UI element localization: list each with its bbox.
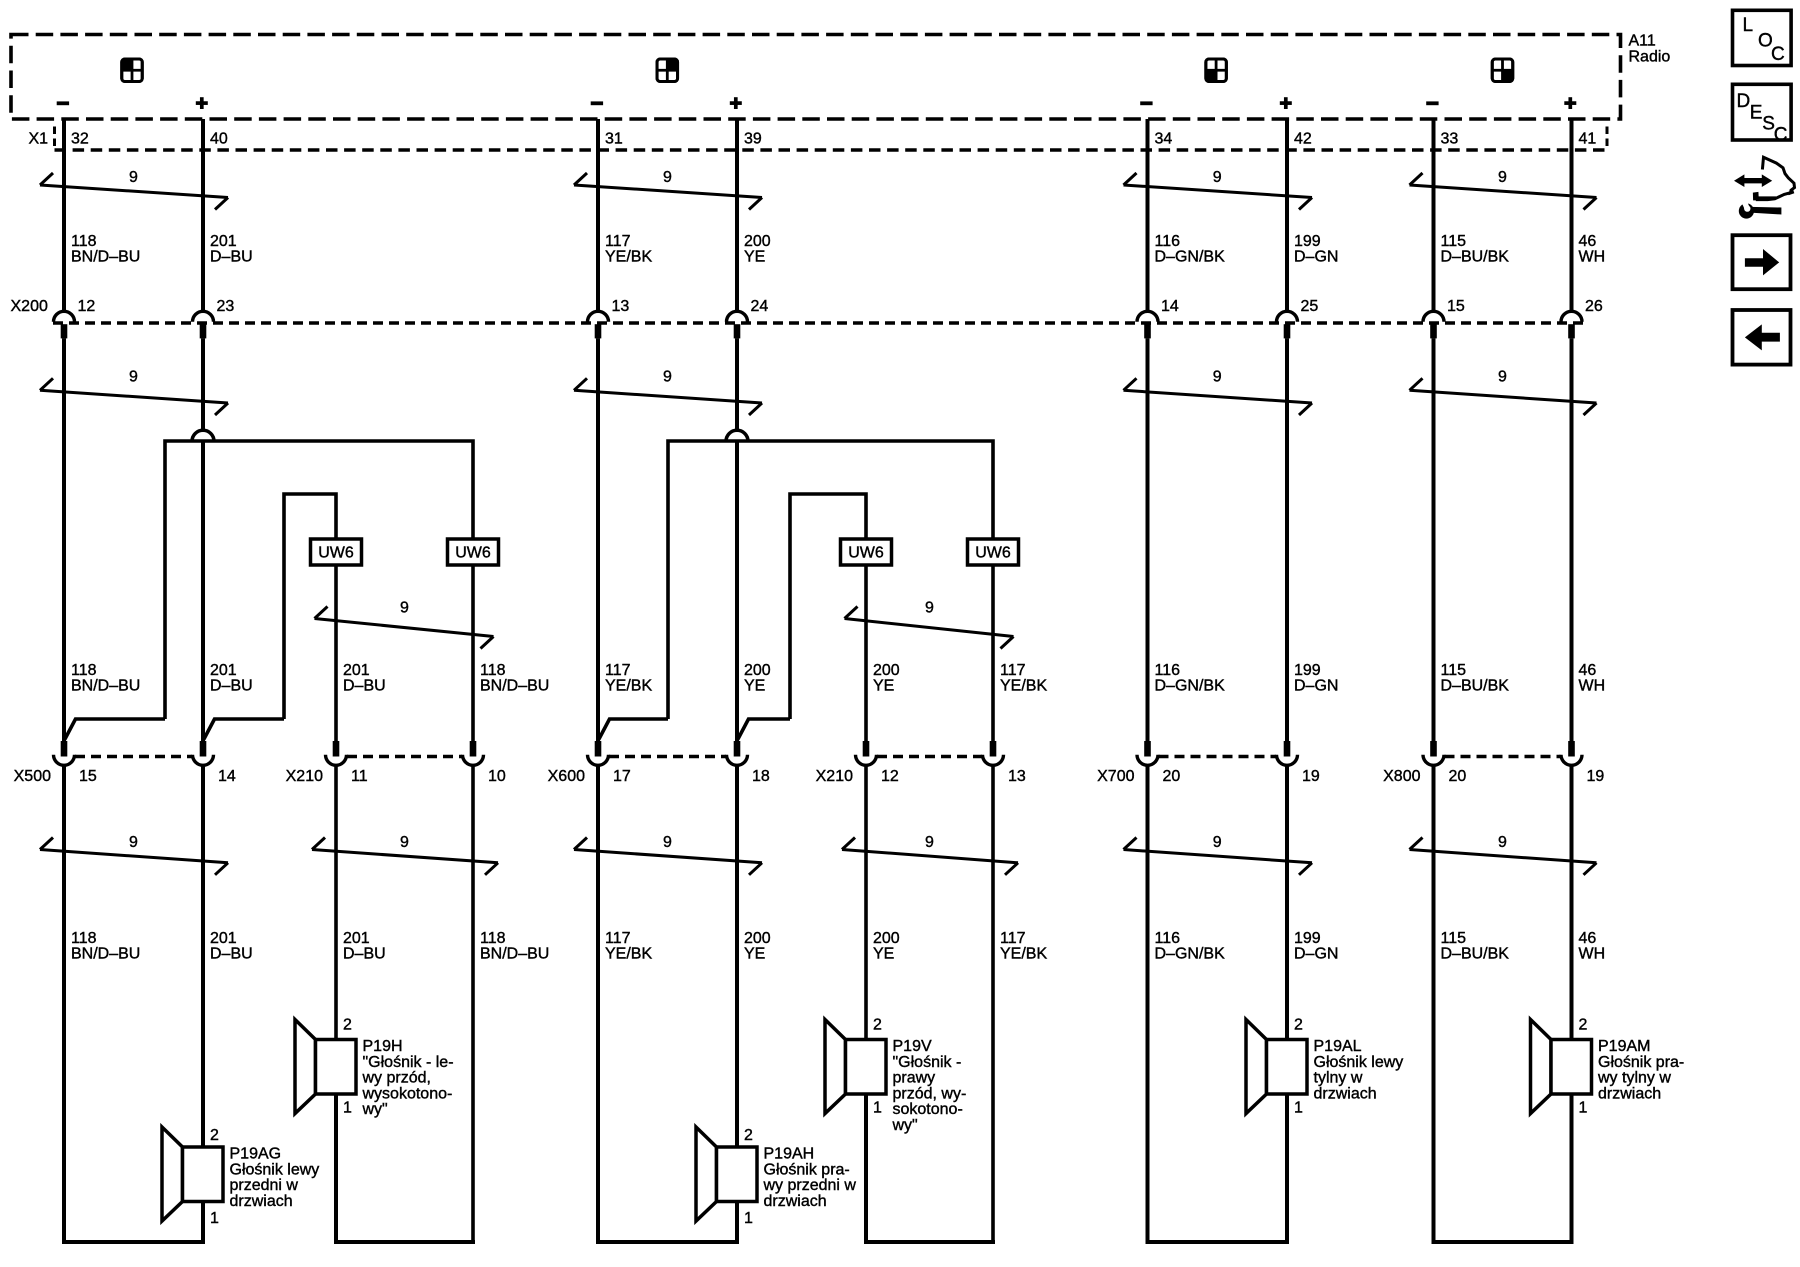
svg-text:15: 15 [1447,298,1465,315]
svg-text:E: E [1750,102,1763,123]
wire bottom return U [1146,1240,1290,1244]
svg-text:YE: YE [744,946,765,963]
svg-text:201: 201 [210,233,237,250]
svg-text:Głośnik pra-: Głośnik pra- [1598,1054,1684,1071]
svg-text:X210: X210 [816,768,853,785]
svg-text:drzwiach: drzwiach [764,1193,827,1210]
DESC reference box [1733,84,1792,145]
svg-text:Radio: Radio [1629,48,1671,65]
svg-text:26: 26 [1585,298,1603,315]
option box UW6 [841,539,892,565]
svg-text:X1: X1 [29,131,49,148]
polarity plus mark [730,97,742,109]
X500 terminal pin 14 [193,741,236,785]
svg-text:D–BU: D–BU [343,946,386,963]
svg-text:X700: X700 [1097,768,1134,785]
svg-text:39: 39 [744,131,762,148]
wire label 200 YE [744,662,771,695]
svg-text:YE/BK: YE/BK [1000,946,1047,963]
svg-text:BN/D–BU: BN/D–BU [71,946,140,963]
svg-text:D–GN: D–GN [1294,249,1338,266]
svg-text:115: 115 [1441,233,1467,250]
twisted pair symbol (note 9) [842,834,1018,875]
wire label 118 BN/D–BU [480,662,549,695]
svg-text:116: 116 [1155,233,1181,250]
wire label 201 D–BU [210,930,253,963]
svg-text:117: 117 [605,662,631,679]
svg-text:9: 9 [663,369,672,386]
svg-text:9: 9 [400,600,409,617]
twisted pair symbol (note 9) [845,600,1014,649]
branch wire 117 merge into X600-17 [599,719,668,740]
svg-text:C: C [1774,124,1788,145]
svg-text:YE: YE [873,946,894,963]
wire label 199 D–GN [1294,930,1338,963]
svg-text:200: 200 [873,662,900,679]
svg-text:WH: WH [1579,249,1606,266]
connector X700 dashed line [1159,755,1277,758]
X700 terminal pin 20 [1137,741,1180,785]
svg-text:P19V: P19V [893,1038,932,1055]
svg-text:1: 1 [1579,1100,1588,1117]
svg-text:9: 9 [1213,834,1222,851]
svg-text:199: 199 [1294,662,1321,679]
svg-text:9: 9 [129,169,138,186]
label X600 [548,768,585,785]
polarity plus mark [196,97,208,109]
svg-text:WH: WH [1579,946,1606,963]
wire speaker P19H pin 1 to bottom U [334,1094,338,1242]
forward arrow box [1733,235,1791,289]
svg-text:P19AL: P19AL [1314,1038,1362,1055]
wire label 117 YE/BK [605,662,652,695]
wire label 201 D–BU [343,930,386,963]
svg-text:1: 1 [343,1100,352,1117]
twisted pair symbol (note 9) [40,834,228,875]
svg-text:D: D [1737,91,1751,112]
svg-text:BN/D–BU: BN/D–BU [71,678,140,695]
wire 201 to tweeter pin 2 [334,767,338,1040]
connector X600 dashed line [609,755,726,758]
X200 terminal pin 15 [1423,298,1465,338]
wire label 118 BN/D–BU [71,930,140,963]
svg-text:1: 1 [1294,1100,1303,1117]
wire 118 to speaker return (bottom U) [62,767,66,1243]
svg-text:9: 9 [925,600,934,617]
X210 terminal pin 10 [463,741,506,785]
svg-text:201: 201 [343,930,370,947]
svg-text:D–GN/BK: D–GN/BK [1155,249,1226,266]
connector face icon (BL quadrant filled) [1206,59,1227,82]
X600 terminal pin 17 [588,741,631,785]
svg-text:D–BU/BK: D–BU/BK [1441,946,1510,963]
wire bottom return U [62,1240,205,1244]
twisted pair symbol (note 9) [315,600,494,649]
svg-text:117: 117 [1000,662,1026,679]
wire label 117 YE/BK [605,930,652,963]
wire label 200 YE [873,930,900,963]
svg-text:15: 15 [79,768,97,785]
svg-text:YE/BK: YE/BK [1000,678,1047,695]
svg-text:201: 201 [210,662,237,679]
wire label 115 D–BU/BK [1441,233,1510,266]
wire label 118 BN/D–BU [71,233,140,266]
wire 46 from X1-41 to X200 [1570,119,1574,313]
twisted pair symbol (note 9) [40,169,228,210]
wire bottom return U [334,1240,475,1244]
X1 pin 34 [1155,131,1173,148]
wire 117 to speaker return (bottom U) [596,767,600,1243]
wire 115 from X1-33 to X200 [1432,119,1436,313]
speaker P19AH [696,1127,856,1227]
svg-text:wy przód,: wy przód, [362,1070,431,1087]
X1 pin 31 [605,131,623,148]
X200 terminal pin 24 [727,298,769,338]
branch wire 201 to X210 [284,494,336,719]
svg-text:9: 9 [129,834,138,851]
polarity minus mark [1140,101,1152,105]
svg-text:2: 2 [210,1127,219,1144]
wire 118 UW6 to X210-10 [471,565,475,742]
polarity minus mark [591,101,603,105]
svg-text:wy": wy" [362,1101,388,1118]
branch wire 117 crossover to X210 [668,441,993,719]
svg-text:200: 200 [744,233,771,250]
label X1 [29,131,49,148]
svg-text:D–GN/BK: D–GN/BK [1155,678,1226,695]
X1 pin 41 [1579,131,1597,148]
polarity plus mark [1280,97,1292,109]
X1 pin 32 [71,131,89,148]
wire label 46 WH [1579,662,1606,695]
wire 200 from X1-39 to X200 [735,119,739,313]
svg-text:L: L [1743,15,1754,36]
X1 pin 39 [744,131,762,148]
svg-text:"Głośnik - le-: "Głośnik - le- [363,1054,454,1071]
speaker P19AL [1246,1017,1403,1117]
wire 201 UW6 to X210-11 [334,565,338,742]
twisted pair symbol (note 9) [1410,834,1597,875]
svg-text:17: 17 [613,768,631,785]
connector X500 dashed line [75,755,192,758]
back arrow box [1733,310,1791,365]
svg-text:13: 13 [612,298,630,315]
label X800 [1383,768,1420,785]
wire label 118 BN/D–BU [71,662,140,695]
X1 pin 42 [1294,131,1312,148]
svg-text:33: 33 [1441,131,1459,148]
svg-text:UW6: UW6 [975,545,1011,562]
wire speaker P19AG pin 1 to bottom U [201,1202,205,1243]
svg-text:A11: A11 [1629,33,1656,50]
svg-text:2: 2 [873,1017,882,1034]
label X500 [14,768,51,785]
svg-text:UW6: UW6 [318,545,354,562]
wire label 116 D–GN/BK [1155,662,1226,695]
svg-text:118: 118 [71,662,97,679]
svg-text:P19AM: P19AM [1598,1038,1650,1055]
svg-text:przód, wy-: przód, wy- [893,1085,967,1102]
X200 terminal pin 26 [1561,298,1603,338]
svg-text:D–GN: D–GN [1294,678,1338,695]
speaker P19AM [1531,1017,1685,1117]
label X200 [11,298,48,315]
wire label 201 D–BU [210,662,253,695]
svg-text:P19AG: P19AG [230,1146,282,1163]
wire speaker P19AH pin 1 to bottom U [735,1202,739,1243]
svg-text:1: 1 [744,1210,753,1227]
svg-text:YE: YE [744,678,765,695]
svg-text:24: 24 [751,298,769,315]
wire label 117 YE/BK [1000,930,1047,963]
svg-text:12: 12 [78,298,96,315]
svg-text:10: 10 [488,768,506,785]
wire bottom return U [864,1240,995,1244]
twisted pair symbol (note 9) [312,834,498,875]
wire 115 to speaker return (bottom U) [1432,767,1436,1243]
wire 117 to tweeter return (bottom U) [991,767,995,1243]
connector face icon (BR quadrant filled) [1492,59,1513,82]
wire 116 from X200 to X700 [1146,338,1150,742]
svg-text:116: 116 [1155,930,1181,947]
svg-text:Głośnik lewy: Głośnik lewy [230,1161,320,1178]
svg-text:9: 9 [1213,169,1222,186]
svg-text:32: 32 [71,131,89,148]
wire label 116 D–GN/BK [1155,233,1226,266]
wire bottom return U [596,1240,739,1244]
wire 46 to speaker pin 2 [1570,767,1574,1040]
wire label 118 BN/D–BU [480,930,549,963]
svg-text:X200: X200 [11,298,48,315]
wire label 199 D–GN [1294,662,1338,695]
X210 terminal pin 11 [326,741,368,785]
svg-text:13: 13 [1008,768,1026,785]
label X700 [1097,768,1134,785]
svg-text:D–GN: D–GN [1294,946,1338,963]
wire 201 from X200 to X500 (with crossover hop) [192,338,214,742]
svg-text:X600: X600 [548,768,585,785]
wire speaker P19AM pin 1 to bottom U [1570,1094,1574,1242]
svg-text:9: 9 [663,169,672,186]
connector X1 dashed line [55,127,1608,151]
svg-text:D–BU/BK: D–BU/BK [1441,678,1510,695]
wire 199 from X200 to X700 [1285,338,1289,742]
svg-text:116: 116 [1155,662,1181,679]
svg-text:117: 117 [605,930,631,947]
X200 terminal pin 23 [193,298,235,338]
wire 115 from X200 to X800 [1432,338,1436,742]
svg-text:Głośnik pra-: Głośnik pra- [764,1161,850,1178]
svg-text:9: 9 [1213,369,1222,386]
LOC reference box [1733,10,1792,65]
svg-text:18: 18 [752,768,770,785]
wire label 115 D–BU/BK [1441,662,1510,695]
svg-text:46: 46 [1579,662,1597,679]
svg-text:X210: X210 [286,768,323,785]
label A11 Radio [1629,33,1671,66]
svg-text:sokotono-: sokotono- [893,1101,963,1118]
wire 201 from X1-40 to X200 [201,119,205,313]
wire 117 from X1-31 to X200 [596,119,600,313]
svg-text:25: 25 [1301,298,1319,315]
twisted pair symbol (note 9) [574,369,762,416]
branch wire 201 merge into X500-14 [204,719,284,740]
svg-text:9: 9 [1498,169,1507,186]
svg-text:BN/D–BU: BN/D–BU [71,249,140,266]
wire label 115 D–BU/BK [1441,930,1510,963]
wire 199 from X1-42 to X200 [1285,119,1289,313]
wire label 200 YE [744,930,771,963]
twisted pair symbol (note 9) [1410,369,1597,416]
label X210 [816,768,853,785]
svg-text:BN/D–BU: BN/D–BU [480,946,549,963]
svg-text:200: 200 [873,930,900,947]
svg-text:wy przedni w: wy przedni w [763,1177,857,1194]
wire label 200 YE [873,662,900,695]
svg-text:2: 2 [744,1127,753,1144]
svg-text:9: 9 [925,834,934,851]
label X210 [286,768,323,785]
connector X800 dashed line [1445,755,1561,758]
svg-text:2: 2 [1294,1017,1303,1034]
X210 terminal pin 13 [983,741,1026,785]
polarity minus mark [1426,101,1438,105]
connector X210 dashed line [877,755,982,758]
svg-text:WH: WH [1579,678,1606,695]
svg-text:C: C [1771,44,1785,65]
svg-text:117: 117 [1000,930,1026,947]
svg-text:UW6: UW6 [848,545,884,562]
wire 117 UW6 to X210-13 [991,565,995,742]
svg-text:118: 118 [71,233,97,250]
svg-text:D–BU: D–BU [210,249,253,266]
svg-text:X500: X500 [14,768,51,785]
svg-text:tylny w: tylny w [1314,1070,1363,1087]
twisted pair symbol (note 9) [574,834,762,875]
wire label 201 D–BU [210,233,253,266]
branch wire 118 crossover to X210 [165,441,473,719]
X1 pin 40 [210,131,228,148]
X1 pin 33 [1441,131,1459,148]
speaker P19H [295,1017,454,1119]
wire speaker P19AL pin 1 to bottom U [1285,1094,1289,1242]
X800 terminal pin 20 [1423,741,1466,785]
svg-text:przedni w: przedni w [230,1177,299,1194]
branch wire 118 merge into X500-15 [65,719,165,740]
svg-text:UW6: UW6 [455,545,491,562]
wire 200 to speaker pin 2 [735,767,739,1148]
branch wire 200 to X210 [790,494,866,719]
svg-text:1: 1 [873,1100,882,1117]
wire label 201 D–BU [343,662,386,695]
svg-text:199: 199 [1294,233,1321,250]
wire label 46 WH [1579,233,1606,266]
wire 116 from X1-34 to X200 [1146,119,1150,313]
svg-text:118: 118 [480,662,506,679]
connector X210 dashed line [347,755,462,758]
wire 116 to speaker return (bottom U) [1146,767,1150,1243]
svg-text:34: 34 [1155,131,1173,148]
polarity plus mark [1564,97,1576,109]
svg-text:Głośnik lewy: Głośnik lewy [1314,1054,1404,1071]
svg-text:wy tylny w: wy tylny w [1597,1070,1671,1087]
svg-text:20: 20 [1449,768,1467,785]
svg-text:YE: YE [873,678,894,695]
svg-text:2: 2 [1579,1017,1588,1034]
X200 terminal pin 12 [54,298,96,338]
svg-text:YE: YE [744,249,765,266]
wire label 199 D–GN [1294,233,1338,266]
X200 terminal pin 14 [1137,298,1179,338]
svg-text:23: 23 [217,298,235,315]
connector X200 dashed line [53,321,1583,324]
svg-text:9: 9 [400,834,409,851]
wrench icon [1739,197,1782,218]
wire label 117 YE/BK [1000,662,1047,695]
svg-text:D–BU/BK: D–BU/BK [1441,249,1510,266]
svg-text:X800: X800 [1383,768,1420,785]
svg-text:46: 46 [1579,930,1597,947]
X600 terminal pin 18 [727,741,770,785]
svg-text:YE/BK: YE/BK [605,678,652,695]
X800 terminal pin 19 [1561,741,1604,785]
wire label 46 WH [1579,930,1606,963]
X200 terminal pin 13 [588,298,630,338]
wire 46 from X200 to X800 [1570,338,1574,742]
wire 201 to speaker pin 2 [201,767,205,1148]
svg-text:YE/BK: YE/BK [605,946,652,963]
wire 118 to tweeter return (bottom U) [471,767,475,1243]
svg-text:drzwiach: drzwiach [1314,1085,1377,1102]
twisted pair symbol (note 9) [1124,834,1313,875]
svg-text:9: 9 [1498,834,1507,851]
svg-text:wysokotono-: wysokotono- [362,1085,453,1102]
svg-text:201: 201 [343,662,370,679]
X700 terminal pin 19 [1277,741,1320,785]
branch wire 200 merge into X600-18 [738,719,790,740]
twisted pair symbol (note 9) [1124,369,1313,416]
svg-text:117: 117 [605,233,631,250]
svg-text:9: 9 [129,369,138,386]
svg-text:drzwiach: drzwiach [230,1193,293,1210]
svg-text:200: 200 [744,930,771,947]
svg-text:40: 40 [210,131,228,148]
svg-text:11: 11 [351,768,368,785]
svg-text:YE/BK: YE/BK [605,249,652,266]
wire 118 from X1-32 to X200 [62,119,66,313]
svg-text:BN/D–BU: BN/D–BU [480,678,549,695]
svg-text:199: 199 [1294,930,1321,947]
svg-text:42: 42 [1294,131,1312,148]
svg-text:D–BU: D–BU [343,678,386,695]
twisted pair symbol (note 9) [574,169,762,210]
svg-text:20: 20 [1163,768,1181,785]
twisted pair symbol (note 9) [40,369,228,416]
option box UW6 [968,539,1019,565]
connector face icon (TR quadrant filled) [657,59,678,82]
option box UW6 [448,539,499,565]
wire label 116 D–GN/BK [1155,930,1226,963]
wire 117 from X200 to X600 [596,338,600,742]
svg-text:drzwiach: drzwiach [1598,1085,1661,1102]
twisted pair symbol (note 9) [1410,169,1597,210]
svg-text:wy": wy" [892,1117,918,1134]
svg-text:19: 19 [1587,768,1605,785]
wire 200 UW6 to X210-12 [864,565,868,742]
svg-text:118: 118 [71,930,97,947]
wire 199 to speaker pin 2 [1285,767,1289,1040]
svg-text:D–BU: D–BU [210,946,253,963]
